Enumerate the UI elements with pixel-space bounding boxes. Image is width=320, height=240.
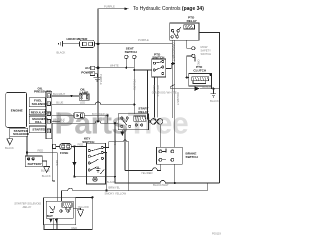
svg-text:BLACK: BLACK [41,169,50,173]
ground aux power [94,77,102,81]
svg-text:FUSE: FUSE [60,151,68,155]
wire magneto stub [52,120,60,122]
svg-text:RELAY: RELAY [138,110,149,114]
wire purple bus horizontal [66,43,172,45]
wire yellow V2 [133,68,135,114]
mow safety switch terminals [192,47,195,50]
svg-text:CLUTCH: CLUTCH [193,69,206,73]
wire key second output to rail2 [104,153,107,191]
wire to hydraulic controls [98,9,129,42]
wire rail3 [125,168,161,171]
wire relay to ground yellow [73,208,80,210]
wire key feed drop [107,116,109,124]
ground battery [42,161,49,172]
wire pto feed drop to connector [147,70,150,121]
svg-text:BATTERY: BATTERY [28,162,43,166]
connector X inline [151,119,157,125]
svg-text:BLUE: BLUE [56,101,63,105]
svg-text:LED: LED [80,100,85,104]
fuel solenoid box [29,98,45,107]
wire rail2 [62,183,208,198]
svg-text:To Hydraulic Controls (page 34: To Hydraulic Controls (page 34) [133,6,204,12]
svg-text:POWER: POWER [81,71,93,75]
svg-text:BAT: BAT [47,214,53,218]
ground hour meter [58,41,66,46]
svg-text:ENGINE: ENGINE [11,109,23,113]
wire oil lamp [52,95,80,97]
svg-text:SWITCH: SWITCH [186,155,199,159]
svg-text:YELLOW: YELLOW [78,205,90,209]
starter solenoid box [10,128,28,136]
svg-text:RED: RED [113,140,117,146]
fuse F1 [51,123,53,144]
magneto kill box [29,116,45,123]
regulator box [29,109,45,115]
wire rail1 black [115,123,220,183]
engine connector strip [46,91,52,139]
wire left black drop [52,149,55,182]
svg-text:PURPLE: PURPLE [99,74,103,85]
svg-text:SAFETY: SAFETY [201,48,212,52]
connector inline [74,113,84,119]
wire pto switch feed [134,69,152,71]
svg-text:BLACK/WHT: BLACK/WHT [153,183,169,187]
wire brake bottoms [161,164,175,183]
wire fuse B line [52,115,108,117]
brake switch SW3 [157,147,183,164]
wire blue bus [52,102,135,105]
wire battery main [26,136,28,156]
svg-text:KILL: KILL [35,120,42,124]
svg-text:PURPLE: PURPLE [138,38,149,42]
ground starter solenoid [7,136,13,144]
svg-text:YEL/RED: YEL/RED [141,171,153,175]
wire bottom red [44,219,92,230]
svg-text:BLACK: BLACK [210,99,219,103]
svg-text:SOLENOID: SOLENOID [13,132,30,136]
svg-text:F00119: F00119 [212,232,221,236]
svg-text:BLACK: BLACK [202,85,211,89]
svg-text:BLU/WHT: BLU/WHT [53,92,65,96]
svg-text:RELAY: RELAY [187,19,198,23]
svg-text:PURPLE: PURPLE [104,5,115,9]
wire red/black main [52,120,119,123]
svg-text:YEL: YEL [56,112,62,116]
wire relay top right [76,196,93,198]
svg-text:SWITCH: SWITCH [125,50,138,54]
watermark PartsTree [55,107,189,141]
svg-text:ORANGE/WHITE: ORANGE/WHITE [152,91,177,95]
wire x74 vertical [73,146,75,176]
wire pto relay to right rail [199,33,220,184]
wire purple bus vertical [97,44,99,121]
svg-text:SWITCH: SWITCH [201,52,212,56]
wire pto switch bottoms [154,77,157,118]
svg-text:YELLOW: YELLOW [132,79,136,91]
wire start relay outputs [121,130,123,131]
svg-text:WHITE: WHITE [110,63,119,67]
diode D1 [171,85,195,89]
wire seat switch feed [98,67,134,69]
svg-text:RED: RED [38,149,44,153]
svg-text:PRESSURE: PRESSURE [34,90,51,94]
wire connector to brake [160,125,162,147]
svg-text:WHT/BLK: WHT/BLK [53,117,65,121]
ground right mid [211,89,216,97]
svg-text:RELAY: RELAY [23,205,32,209]
svg-text:BRN/YEL: BRN/YEL [109,186,121,190]
svg-text:B POWER: B POWER [92,112,105,116]
wire pto switch right step [166,64,174,69]
svg-text:RED: RED [55,160,59,166]
battery B1 [25,156,42,167]
node junction hour meter [97,42,100,45]
svg-text:RED: RED [72,226,78,230]
svg-text:BLACK: BLACK [5,146,14,150]
svg-text:SMOKY YELLOW: SMOKY YELLOW [105,191,127,195]
starter box small [29,126,45,133]
engine box [6,92,27,127]
svg-text:BLACK: BLACK [57,51,66,55]
svg-text:BLACK: BLACK [42,174,51,178]
svg-text:STARTER: STARTER [32,128,47,132]
svg-text:BLACK: BLACK [107,180,116,184]
wire pto relay bottoms [172,40,175,147]
wire key switch to start circuit [103,140,128,191]
svg-text:ORANGE/WHT: ORANGE/WHT [172,43,176,62]
svg-text:MOW: MOW [201,45,208,49]
